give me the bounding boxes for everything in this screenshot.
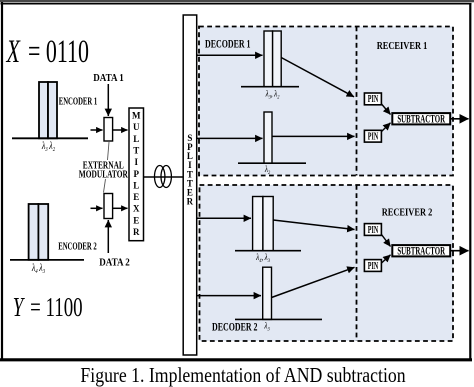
svg-text:DATA 1: DATA 1 [93, 72, 124, 84]
encoder 2 spectrum bar lambda4 [29, 204, 39, 260]
svg-text:DECODER 1: DECODER 1 [205, 38, 250, 51]
svg-text:PIN: PIN [368, 259, 379, 271]
decoder 2 single bar lambda3 [263, 267, 272, 319]
decoder 1 spectrum baseline [241, 86, 299, 88]
wire splitter to decoder 1 single bar [197, 137, 263, 139]
wire decoder 1 diagonal to PIN 1 [281, 58, 354, 97]
label SPLITTER vertical [187, 133, 194, 207]
svg-text:RECEIVER 2: RECEIVER 2 [382, 208, 433, 219]
svg-text:I: I [135, 157, 139, 167]
svg-text:L: L [133, 134, 139, 144]
fiber coil loop 1 [155, 166, 165, 188]
svg-text:X = 0110: X = 0110 [6, 34, 89, 71]
decoder 2 spectrum bar lambda4 [253, 197, 263, 251]
decoder 1 single bar lambda2 [264, 112, 272, 163]
svg-text:PIN: PIN [368, 92, 379, 104]
encoder 1 spectrum bar lambda3 [39, 82, 48, 138]
splitter box [183, 15, 197, 355]
fiber coil loop 2 [161, 166, 171, 188]
wire PIN 3 to subtractor 2 [382, 235, 391, 247]
encoder 1 spectrum bar lambda2 [48, 82, 57, 138]
svg-text:T: T [133, 146, 139, 156]
wire DATA 2 up into modulator 2 [107, 220, 109, 253]
decoder 2 spectrum bar lambda3 [263, 197, 273, 251]
svg-text:R: R [133, 227, 140, 237]
svg-text:Figure 1. Implementation of A: Figure 1. Implementation of AND subtract… [80, 365, 405, 387]
external modulator 1 [104, 118, 113, 142]
wire PIN 1 to subtractor 1 [382, 104, 391, 115]
svg-text:SUBTRACTOR: SUBTRACTOR [397, 112, 445, 125]
svg-text:PIN: PIN [368, 223, 379, 235]
wire PIN 2 to subtractor 1 [382, 123, 391, 132]
wire subtractor 2 output [451, 250, 469, 252]
svg-text:R: R [187, 197, 194, 207]
multiplexer U1 box [129, 108, 144, 241]
svg-text:U: U [133, 122, 140, 132]
decoder 1 spectrum bar lambda3 [264, 31, 273, 87]
PIN photodiode 2 [364, 130, 381, 142]
svg-text:DECODER 2: DECODER 2 [212, 321, 257, 334]
encoder 2 spectrum baseline [10, 259, 84, 261]
svg-text:SUBTRACTOR: SUBTRACTOR [397, 244, 445, 257]
svg-text:RECEIVER 1: RECEIVER 1 [377, 41, 428, 52]
svg-text:E: E [133, 215, 139, 225]
wire PIN 4 to subtractor 2 [382, 255, 391, 263]
receiver 2 dashed separator [356, 185, 358, 341]
PIN photodiode 1 [364, 92, 381, 104]
svg-text:X: X [133, 204, 140, 214]
svg-text:ENCODER 1: ENCODER 1 [59, 95, 98, 107]
svg-text:L: L [133, 180, 139, 190]
svg-text:M: M [132, 111, 141, 121]
wire splitter to decoder 2 double bar [197, 217, 251, 219]
encoder 1 spectrum baseline [12, 137, 88, 139]
encoder 2 spectrum bar lambda3 [38, 204, 48, 260]
wire encoder 2 to modulator 2 [91, 207, 103, 209]
wire splitter to decoder 2 single bar [197, 295, 261, 297]
label EXTERNAL MODULATOR [79, 160, 129, 180]
svg-text:DATA 2: DATA 2 [99, 257, 130, 269]
wire decoder 2 diagonal to PIN 3 [273, 220, 354, 230]
svg-text:PIN: PIN [368, 130, 379, 142]
decoder 1 spectrum bar lambda2 [273, 31, 282, 87]
wire decoder 1 single bar to PIN 2 [272, 135, 355, 137]
PIN photodiode 3 [364, 223, 381, 235]
wire decoder 2 single bar to PIN 4 [272, 267, 355, 297]
decoder 2 single bar baseline [235, 318, 322, 320]
wire multiplexer to splitter fiber line [144, 176, 184, 178]
svg-text:Y = 1100: Y = 1100 [13, 293, 83, 323]
wire modulator 2 to multiplexer [113, 207, 128, 209]
svg-text:E: E [133, 192, 139, 202]
callout line to modulator 1 [108, 142, 110, 160]
receiver 1 dashed separator [356, 27, 358, 176]
wire splitter to decoder 1 double bar [197, 54, 263, 56]
top gray screenshot band [0, 0, 474, 2]
wire modulator 1 to multiplexer [113, 129, 128, 131]
svg-text:ENCODER 2: ENCODER 2 [58, 240, 97, 252]
wire subtractor 1 output [451, 118, 469, 120]
label MULTIPLEXER vertical [132, 111, 141, 237]
decoder 2 spectrum baseline [235, 250, 301, 252]
decoder 1 / receiver 1 dashed box [199, 27, 453, 176]
decoder 2 / receiver 2 dashed box [200, 185, 454, 341]
subtractor 2 box [392, 244, 450, 257]
callout line to modulator 2 [104, 179, 106, 193]
external modulator 2 [104, 194, 113, 219]
svg-text:MODULATOR: MODULATOR [79, 168, 129, 179]
wire DATA 1 down into modulator 1 [107, 84, 109, 116]
decoder 1 single bar baseline [238, 162, 306, 164]
svg-text:P: P [134, 169, 140, 179]
subtractor 1 box [392, 112, 450, 125]
wire encoder 1 to modulator 1 [91, 129, 103, 131]
PIN photodiode 4 [364, 259, 381, 271]
